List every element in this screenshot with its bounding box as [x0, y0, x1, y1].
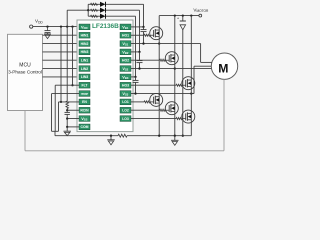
resistor RD3	[91, 15, 98, 17]
transistor Q5 (high side 3)	[182, 77, 195, 90]
resistor RD2	[91, 9, 98, 11]
svg-text:ITRIP: ITRIP	[81, 92, 88, 96]
svg-text:FLT: FLT	[82, 83, 89, 87]
wire VDD rail	[33, 26, 79, 28]
wire EN pullup	[60, 27, 62, 102]
wire D2 drop to VB2	[139, 10, 141, 52]
junction VS2 node	[174, 67, 176, 69]
resistor RLO1	[144, 101, 150, 103]
ground G1 star	[110, 136, 112, 140]
junction VS1 node	[158, 42, 160, 44]
junction VS3 node	[190, 92, 192, 94]
junction VDD-EN pullup	[60, 25, 62, 27]
pin EN (left 10)	[79, 99, 90, 105]
capacitor C1 VDD bypass	[47, 27, 49, 31]
pin LIN3 (left 7)	[79, 74, 90, 80]
svg-text:LIN2: LIN2	[81, 67, 88, 71]
transistor Q3 (high side 2)	[165, 52, 178, 65]
resistor RHO2	[160, 59, 166, 61]
junction EN pullup	[60, 101, 62, 103]
pin LO3 (right 12)	[120, 116, 131, 122]
junction VSS	[66, 117, 68, 119]
pin HIN1 (left 2)	[79, 32, 90, 38]
wire MCU to LIN2	[43, 68, 80, 70]
op-amp U1 LF2136B body	[77, 20, 133, 132]
junction bus star	[110, 135, 112, 137]
resistor RHO1	[144, 34, 150, 36]
svg-text:LIN3: LIN3	[81, 75, 88, 79]
wire column phase1	[158, 16, 160, 136]
wire diode D3 row	[88, 15, 100, 17]
svg-text:HO2: HO2	[122, 58, 129, 62]
resistor RHO3	[176, 84, 182, 86]
motor M	[211, 53, 237, 79]
resistor RD1	[91, 3, 98, 5]
pin VS1 (right 3)	[120, 41, 131, 47]
svg-text:MCU: MCU	[19, 63, 31, 69]
wire V-motor rail	[159, 15, 199, 17]
capacitor CB1 chain	[143, 27, 145, 30]
svg-text:HO3: HO3	[122, 83, 129, 87]
svg-text:3-Phase Control: 3-Phase Control	[8, 69, 42, 74]
resistor RLO2	[160, 109, 166, 111]
pin LO2 (right 11)	[120, 107, 131, 113]
wire diode D2 row	[88, 9, 100, 11]
resistor RS shunt	[118, 134, 127, 137]
svg-text:HIN3: HIN3	[81, 50, 89, 54]
wire VB3 to D3	[131, 76, 136, 78]
junction bus col1	[158, 135, 160, 137]
pin LIN2 (left 6)	[79, 66, 90, 72]
pin COM (left 13)	[79, 124, 90, 130]
wire ITRIP	[52, 93, 80, 95]
capacitor C-RCIN	[65, 111, 70, 113]
wire diode D1 row	[88, 3, 100, 5]
wire VB2 to D2	[131, 51, 140, 53]
wire diode feed	[66, 10, 68, 26]
svg-text:HO1: HO1	[122, 33, 129, 37]
wire RCIN	[66, 109, 68, 111]
pin HO2 (right 5)	[120, 57, 131, 63]
junction rail cap	[182, 14, 184, 16]
wire column phase2	[174, 16, 176, 136]
svg-text:LIN1: LIN1	[81, 58, 88, 62]
junction VB1	[142, 26, 144, 28]
wire RC chain upper	[66, 27, 68, 101]
wire LO3 gate	[131, 118, 176, 120]
wire FLT	[55, 84, 79, 86]
pin VB1 (right 1)	[120, 24, 131, 30]
junction COM	[66, 126, 68, 128]
junction cap-bus	[182, 135, 184, 137]
VDD terminal	[30, 25, 33, 28]
svg-text:HIN2: HIN2	[81, 42, 89, 46]
junction VDD-RC chain	[66, 25, 68, 27]
junction diode feed	[87, 9, 89, 11]
wire HO3 gate	[131, 84, 176, 86]
svg-text:LO3: LO3	[122, 117, 129, 121]
pin ITRIP (left 9)	[79, 91, 90, 97]
wire MCU to HIN2	[43, 43, 80, 45]
svg-text:EN: EN	[82, 100, 87, 104]
svg-text:LF2136B: LF2136B	[92, 23, 119, 30]
junction VS3-CB3	[134, 92, 136, 94]
wire D1 drop to VB1	[143, 4, 145, 27]
pin HO3 (right 8)	[120, 82, 131, 88]
wire VS3	[131, 93, 194, 95]
svg-text:RCIN: RCIN	[80, 108, 89, 112]
pin VS2 (right 6)	[120, 66, 131, 72]
diode D3	[100, 14, 106, 19]
junction FLT pullup	[71, 84, 73, 86]
wire feedback	[24, 111, 26, 151]
capacitor CB3 chain	[135, 77, 137, 80]
junction RCIN	[66, 109, 68, 111]
wire VS1	[131, 43, 159, 45]
diode D2	[100, 8, 106, 13]
wire fault connector	[52, 130, 59, 132]
junction VS2-CB2	[138, 67, 140, 69]
capacitor C2 bus electrolytic	[182, 16, 184, 21]
junction VDD-cap	[46, 25, 48, 27]
svg-text:M: M	[218, 61, 228, 75]
pin VSS (left 12)	[79, 116, 90, 122]
wire VS2	[131, 68, 175, 70]
pin VB3 (right 7)	[120, 74, 131, 80]
MCU block	[8, 34, 43, 110]
wire VB1 to D1	[131, 26, 144, 28]
resistor R-RCIN	[66, 101, 69, 109]
transistor Q4 (low side 2)	[165, 102, 178, 115]
wire column phase3	[190, 16, 192, 136]
wire MCU to HIN3	[43, 51, 80, 53]
pin VS3 (right 9)	[120, 91, 131, 97]
svg-text:HIN1: HIN1	[81, 33, 89, 37]
wire ground bus	[55, 135, 118, 137]
diode D1	[100, 2, 106, 7]
ground VDD cap	[44, 33, 51, 35]
junction VB2	[138, 51, 140, 53]
transistor Q2 (low side 1)	[150, 93, 163, 106]
wire LO1 gate	[131, 101, 144, 103]
pin VDD (left 1)	[79, 24, 90, 30]
wire phase2 to motor	[175, 68, 211, 70]
wire phase1 to motor	[159, 43, 200, 45]
wire D3 drop to VB3	[135, 16, 137, 77]
transistor Q6 (low side 3)	[182, 110, 195, 123]
wire diode block vertical	[87, 4, 89, 16]
V-MOTOR terminal	[199, 14, 202, 17]
svg-text:LO1: LO1	[122, 100, 129, 104]
pin RCIN (left 11)	[79, 107, 90, 113]
svg-text:VMOTOR: VMOTOR	[193, 7, 209, 13]
svg-text:COM: COM	[81, 125, 89, 129]
ground G2 chain	[66, 127, 68, 131]
wire FLT pullup	[72, 27, 74, 86]
transistor Q1 (high side 1)	[150, 27, 163, 40]
junction VS1-CB1	[142, 42, 144, 44]
pin FLT (left 8)	[79, 82, 90, 88]
junction VDD-FLT pullup	[71, 25, 73, 27]
pin VB2 (right 4)	[120, 49, 131, 55]
junction VB3	[134, 76, 136, 78]
junction rail col3	[190, 14, 192, 16]
wire chain down	[66, 119, 68, 127]
pin LIN1 (left 5)	[79, 57, 90, 63]
wire MCU to LIN1	[43, 59, 80, 61]
capacitor CB2 chain	[139, 52, 141, 61]
wire LO2 gate	[131, 109, 160, 111]
junction bus col2	[174, 135, 176, 137]
wire HO1 gate	[131, 34, 144, 36]
wire HO2 gate	[131, 59, 160, 61]
wire EN	[59, 101, 80, 103]
pin HIN2 (left 3)	[79, 41, 90, 47]
pin HO1 (right 2)	[120, 32, 131, 38]
wire MCU to LIN3	[43, 76, 80, 78]
wire COM	[67, 126, 79, 128]
wire phase3 to motor	[193, 66, 195, 93]
wire VSS	[67, 118, 79, 120]
pin LO1 (right 10)	[120, 99, 131, 105]
junction rail col2	[174, 14, 176, 16]
svg-text:LO2: LO2	[122, 108, 129, 112]
ground G3 bus	[174, 136, 176, 141]
resistor RLO3	[176, 118, 182, 120]
wire MCU to HIN1	[43, 34, 80, 36]
pin HIN3 (left 4)	[79, 49, 90, 55]
svg-text:VDD: VDD	[35, 19, 43, 25]
